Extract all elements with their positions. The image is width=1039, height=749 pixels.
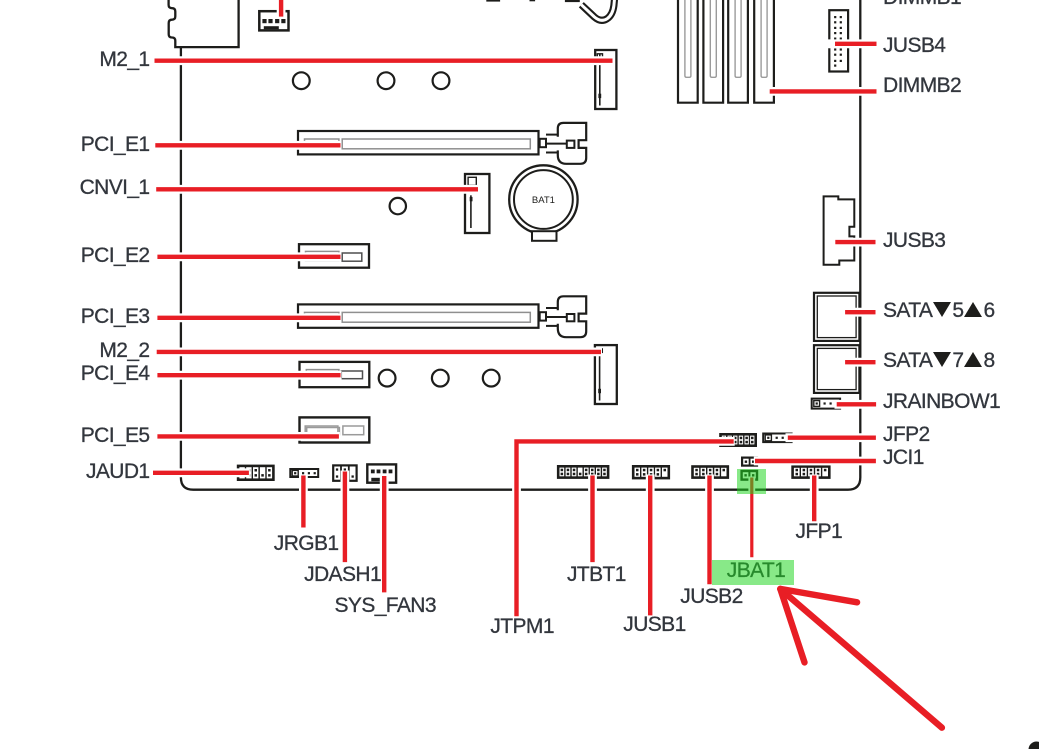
svg-text:BAT1: BAT1 — [532, 195, 555, 206]
